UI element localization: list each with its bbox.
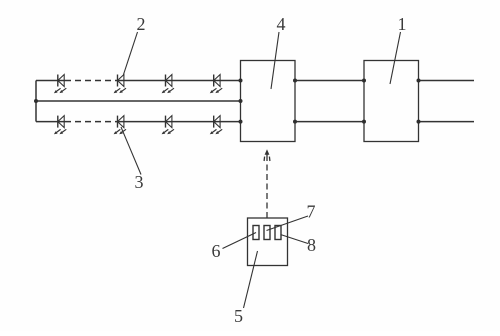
wire bottom rail solid right segment	[117, 121, 241, 123]
wire box4 to box1 lower	[295, 121, 364, 123]
wire bottom rail dashed segment	[65, 121, 117, 123]
wire left vertical bus	[35, 81, 37, 122]
leader line for label 5	[244, 251, 258, 308]
wire box4 to box1 upper	[295, 80, 364, 82]
element 6 key	[253, 226, 259, 240]
svg-text:8: 8	[307, 235, 316, 255]
node box1 output lower	[417, 120, 421, 124]
LED D2 top row (labelled 2)	[114, 75, 126, 94]
block 5 remote sender	[248, 218, 288, 266]
wire dashed signal arrow from block 5 to block 4	[264, 149, 270, 218]
svg-text:5: 5	[234, 306, 243, 326]
node left bus junction	[34, 99, 38, 103]
wire middle rail	[36, 100, 241, 102]
wire box1 output upper	[419, 80, 475, 82]
LED D1 top row	[54, 75, 66, 94]
svg-text:6: 6	[212, 241, 221, 261]
node box1 input upper	[362, 79, 366, 83]
block 1 control unit	[364, 61, 419, 142]
LED D3 top row	[162, 75, 174, 94]
LED D8 bottom row	[210, 116, 222, 135]
leader line for label 2	[124, 32, 138, 75]
wire top rail dashed segment	[65, 80, 117, 82]
block 4 driver unit	[241, 61, 296, 142]
wire box1 output lower	[419, 121, 475, 123]
leader line for label 8	[281, 235, 309, 244]
leader line for label 6	[223, 233, 257, 249]
svg-text:7: 7	[307, 202, 316, 222]
LED D6 bottom row	[114, 116, 126, 135]
node box4 input middle	[239, 99, 243, 103]
leader line for label 4	[271, 32, 279, 89]
node box4 input lower	[239, 120, 243, 124]
LED D7 bottom row	[162, 116, 174, 135]
LED D4 top row	[210, 75, 222, 94]
wire top rail solid right segment	[117, 80, 241, 82]
node box1 input lower	[362, 120, 366, 124]
node box1 output upper	[417, 79, 421, 83]
wire bottom rail solid left segment	[36, 121, 65, 123]
leader line for label 3	[121, 127, 141, 175]
node box4 output upper	[293, 79, 297, 83]
element 8 key	[275, 226, 281, 240]
leader line for label 7	[267, 216, 309, 231]
svg-text:4: 4	[277, 14, 286, 34]
svg-text:1: 1	[398, 14, 407, 34]
leader line for label 1	[390, 32, 401, 84]
wire top rail solid left segment	[36, 80, 65, 82]
svg-text:3: 3	[135, 172, 144, 192]
LED D5 bottom row (labelled 3)	[54, 116, 66, 135]
node box4 output lower	[293, 120, 297, 124]
node box4 input upper	[239, 79, 243, 83]
svg-text:2: 2	[137, 14, 146, 34]
element 7 key	[264, 226, 270, 240]
